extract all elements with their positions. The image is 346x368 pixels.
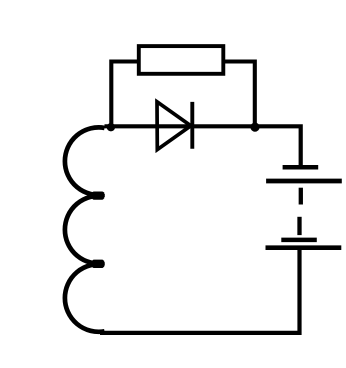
battery BT1 <box>266 167 342 248</box>
wire <box>105 126 301 165</box>
wire <box>223 62 255 128</box>
wire <box>111 62 139 128</box>
resistor R1 <box>139 46 224 74</box>
inductor L1 <box>65 127 105 331</box>
node A <box>107 123 115 131</box>
wire <box>100 250 300 333</box>
node B <box>250 123 259 132</box>
diode D1 <box>157 102 192 150</box>
